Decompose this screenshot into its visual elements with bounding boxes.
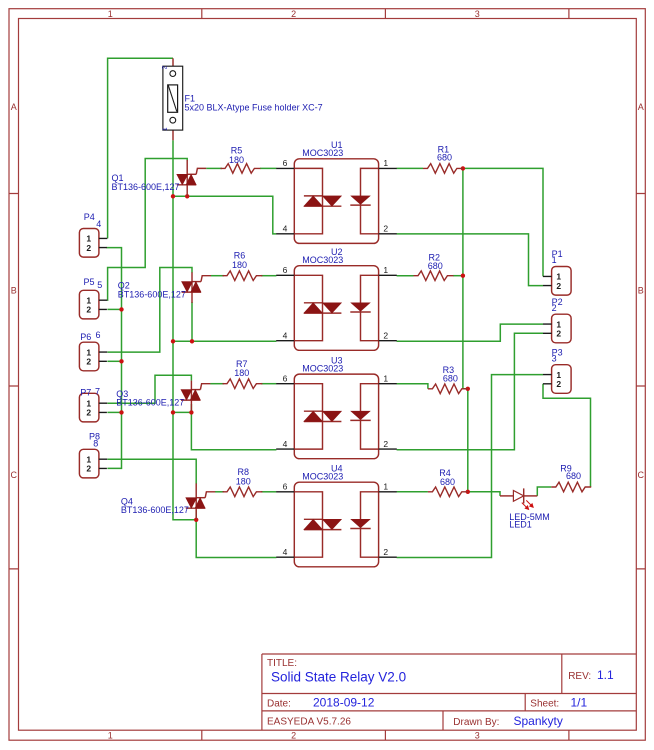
- title block: [262, 654, 636, 730]
- wire Q2 MT1 down: [191, 302, 193, 341]
- svg-text:C: C: [11, 470, 18, 480]
- connector P6: [79, 330, 107, 371]
- svg-text:2: 2: [291, 9, 296, 19]
- svg-text:Drawn By:: Drawn By:: [453, 717, 499, 728]
- svg-text:5x20 BLX-Atype Fuse holder XC-: 5x20 BLX-Atype Fuse holder XC-7: [185, 102, 323, 112]
- wire P8.1 to Q4 MT2: [108, 459, 197, 484]
- wire P5.2 stub: [107, 308, 121, 310]
- wire output bus: [463, 168, 468, 491]
- optocoupler U4 MOC3023: [276, 464, 397, 567]
- svg-text:BT136-600E,127: BT136-600E,127: [118, 290, 186, 300]
- svg-text:MOC3023: MOC3023: [302, 148, 343, 158]
- svg-text:P5: P5: [84, 277, 95, 287]
- triac Q3: [181, 381, 210, 411]
- resistor R7 180: [223, 379, 263, 389]
- wire LED1 to R9: [537, 487, 551, 496]
- wire U3 pin1 to R3 jog: [397, 384, 428, 389]
- wire U1 pin1 to R1: [397, 167, 423, 169]
- wire R1 to P1.1: [463, 168, 543, 276]
- svg-text:180: 180: [232, 260, 247, 270]
- junction: [185, 194, 189, 198]
- connector P4: [79, 212, 107, 257]
- svg-text:680: 680: [443, 373, 458, 383]
- svg-text:6: 6: [283, 158, 288, 168]
- wire P4.1 to F1: [108, 58, 173, 238]
- wire P2.2 to U3 pin2: [397, 333, 543, 449]
- resistor R2 680: [414, 271, 454, 281]
- triac Q2: [182, 272, 211, 303]
- junction: [171, 194, 175, 198]
- optocoupler U1 MOC3023: [276, 140, 397, 243]
- wire P6.2 stub: [107, 360, 121, 362]
- connector P2: [543, 297, 571, 343]
- LED LED1: [500, 488, 550, 529]
- optocoupler U3 MOC3023: [276, 355, 397, 458]
- svg-text:6: 6: [283, 374, 288, 384]
- wire Q3 MT1 down: [190, 404, 192, 412]
- svg-text:2: 2: [556, 329, 561, 339]
- svg-text:2: 2: [86, 464, 91, 474]
- svg-text:REV:: REV:: [568, 671, 591, 682]
- svg-text:3: 3: [552, 354, 557, 364]
- wire R8 to U4 pin6: [261, 491, 276, 493]
- svg-text:A: A: [638, 102, 644, 112]
- svg-text:2: 2: [556, 379, 561, 389]
- svg-text:2: 2: [86, 305, 91, 315]
- resistor R8 180: [223, 487, 263, 497]
- svg-text:2: 2: [383, 439, 388, 449]
- svg-text:3: 3: [475, 730, 480, 740]
- svg-text:A: A: [11, 102, 17, 112]
- wire F1 bottom bus: [173, 140, 196, 520]
- svg-text:BT136-600E,127: BT136-600E,127: [116, 397, 184, 407]
- wire Q4 gate to R8: [215, 491, 224, 493]
- svg-text:2018-09-12: 2018-09-12: [313, 695, 375, 709]
- svg-text:Date:: Date:: [267, 698, 291, 709]
- svg-text:B: B: [638, 286, 644, 296]
- junction: [461, 274, 465, 278]
- wire P3.1 to U4 pin2: [397, 375, 543, 558]
- connector P7: [79, 386, 107, 422]
- wire Q1 gate to R5: [206, 167, 222, 169]
- svg-text:LED1: LED1: [509, 520, 532, 530]
- svg-text:P4: P4: [84, 212, 95, 222]
- junction: [189, 410, 193, 414]
- svg-text:5: 5: [97, 280, 102, 290]
- wire P3.2 to R9: [543, 384, 591, 487]
- junction: [119, 359, 123, 363]
- connector P5: [79, 277, 107, 319]
- connector P3: [543, 348, 571, 394]
- svg-text:7: 7: [95, 386, 100, 396]
- svg-text:Solid State Relay V2.0: Solid State Relay V2.0: [271, 669, 406, 684]
- svg-text:Spankyty: Spankyty: [514, 714, 563, 728]
- wire Q3 MT2 to P7.1: [108, 375, 192, 403]
- svg-text:2: 2: [383, 224, 388, 234]
- svg-text:6: 6: [283, 482, 288, 492]
- svg-text:680: 680: [566, 471, 581, 481]
- optocoupler U2 MOC3023: [276, 247, 397, 350]
- svg-text:P7: P7: [80, 387, 91, 397]
- wire ch1 MT1 to U1 pin4: [173, 196, 276, 234]
- svg-text:EASYEDA V5.7.26: EASYEDA V5.7.26: [267, 717, 351, 728]
- wire R5 to U1 pin6: [260, 167, 276, 169]
- svg-text:1: 1: [383, 265, 388, 275]
- wire U2 pin2 to P2.1: [397, 324, 543, 341]
- svg-text:1: 1: [383, 158, 388, 168]
- svg-text:2: 2: [86, 243, 91, 253]
- wire U1 pin2 to P1.2: [397, 234, 543, 286]
- wire R7 to U3 pin6: [261, 383, 276, 385]
- resistor R9 680: [551, 482, 591, 492]
- connector P8: [79, 432, 107, 478]
- resistor R6 180: [223, 271, 263, 281]
- wire U2 pin1 to R2: [397, 275, 414, 277]
- junction: [119, 410, 123, 414]
- wire Q1 MT2 to P5.1: [108, 159, 188, 301]
- svg-text:4: 4: [283, 331, 288, 341]
- svg-text:4: 4: [283, 547, 288, 557]
- svg-text:3: 3: [475, 9, 480, 19]
- svg-text:MOC3023: MOC3023: [302, 255, 343, 265]
- svg-text:BT136-600E,127: BT136-600E,127: [112, 182, 180, 192]
- wire Q4 MT1 to U4 pin4: [196, 510, 276, 558]
- svg-text:BT136-600E,127: BT136-600E,127: [121, 505, 189, 515]
- svg-text:B: B: [11, 286, 17, 296]
- resistor R3 680: [428, 384, 468, 394]
- svg-text:1: 1: [552, 255, 557, 265]
- junction: [194, 518, 198, 522]
- junction: [119, 307, 123, 311]
- wire R4 to LED1: [468, 492, 500, 496]
- svg-text:2: 2: [552, 303, 557, 313]
- svg-text:1.1: 1.1: [597, 668, 614, 682]
- svg-text:180: 180: [236, 476, 251, 486]
- junction: [190, 339, 194, 343]
- svg-text:2: 2: [383, 331, 388, 341]
- svg-text:1/1: 1/1: [571, 695, 588, 709]
- svg-text:2: 2: [383, 547, 388, 557]
- svg-text:4: 4: [283, 224, 288, 234]
- wire Q2 gate to R6: [211, 275, 224, 277]
- svg-text:2: 2: [162, 65, 169, 69]
- connector P1: [543, 249, 571, 295]
- svg-text:1: 1: [383, 482, 388, 492]
- svg-text:2: 2: [291, 730, 296, 740]
- svg-text:680: 680: [428, 261, 443, 271]
- triac Q1: [177, 160, 206, 196]
- svg-text:2: 2: [556, 281, 561, 291]
- svg-text:1: 1: [383, 374, 388, 384]
- svg-text:2: 2: [86, 408, 91, 418]
- junction: [171, 410, 175, 414]
- wire Q3 gate to R7: [210, 383, 224, 385]
- junction: [461, 166, 465, 170]
- svg-text:MOC3023: MOC3023: [302, 363, 343, 373]
- svg-text:C: C: [638, 470, 645, 480]
- svg-text:1: 1: [162, 127, 169, 131]
- svg-text:Sheet:: Sheet:: [530, 698, 559, 709]
- resistor R4 680: [428, 487, 468, 497]
- svg-text:1: 1: [108, 730, 113, 740]
- wire ch2 MT1 to U2 pin4: [173, 340, 276, 342]
- junction: [171, 339, 175, 343]
- wire ch3 to U3 pin4: [191, 412, 276, 449]
- svg-text:4: 4: [96, 219, 101, 229]
- junction: [466, 490, 470, 494]
- svg-text:4: 4: [283, 439, 288, 449]
- svg-text:P6: P6: [80, 332, 91, 342]
- svg-text:180: 180: [234, 368, 249, 378]
- wire R6 to U2 pin6: [261, 275, 276, 277]
- svg-text:680: 680: [437, 153, 452, 163]
- fuse F1: [162, 58, 323, 140]
- svg-text:180: 180: [229, 155, 244, 165]
- resistor R5 180: [221, 164, 261, 174]
- wire Q2 MT2 to P6.1: [108, 268, 193, 353]
- svg-text:1: 1: [108, 9, 113, 19]
- triac Q4: [186, 483, 215, 519]
- wire neutral bus P4.2-P8.2: [106, 248, 121, 469]
- svg-text:R5: R5: [231, 146, 243, 156]
- resistor R1 680: [423, 164, 463, 174]
- svg-text:8: 8: [93, 438, 98, 448]
- svg-text:TITLE:: TITLE:: [267, 658, 297, 669]
- svg-text:680: 680: [440, 477, 455, 487]
- wire P7.2 stub: [107, 411, 121, 413]
- wire R2 to bus: [453, 275, 463, 277]
- svg-text:MOC3023: MOC3023: [302, 471, 343, 481]
- wire U4 pin1 to R4: [397, 491, 428, 493]
- junction: [466, 387, 470, 391]
- svg-text:6: 6: [283, 265, 288, 275]
- wire ch3 MT1: [173, 411, 191, 413]
- svg-text:6: 6: [96, 330, 101, 340]
- svg-text:2: 2: [86, 357, 91, 367]
